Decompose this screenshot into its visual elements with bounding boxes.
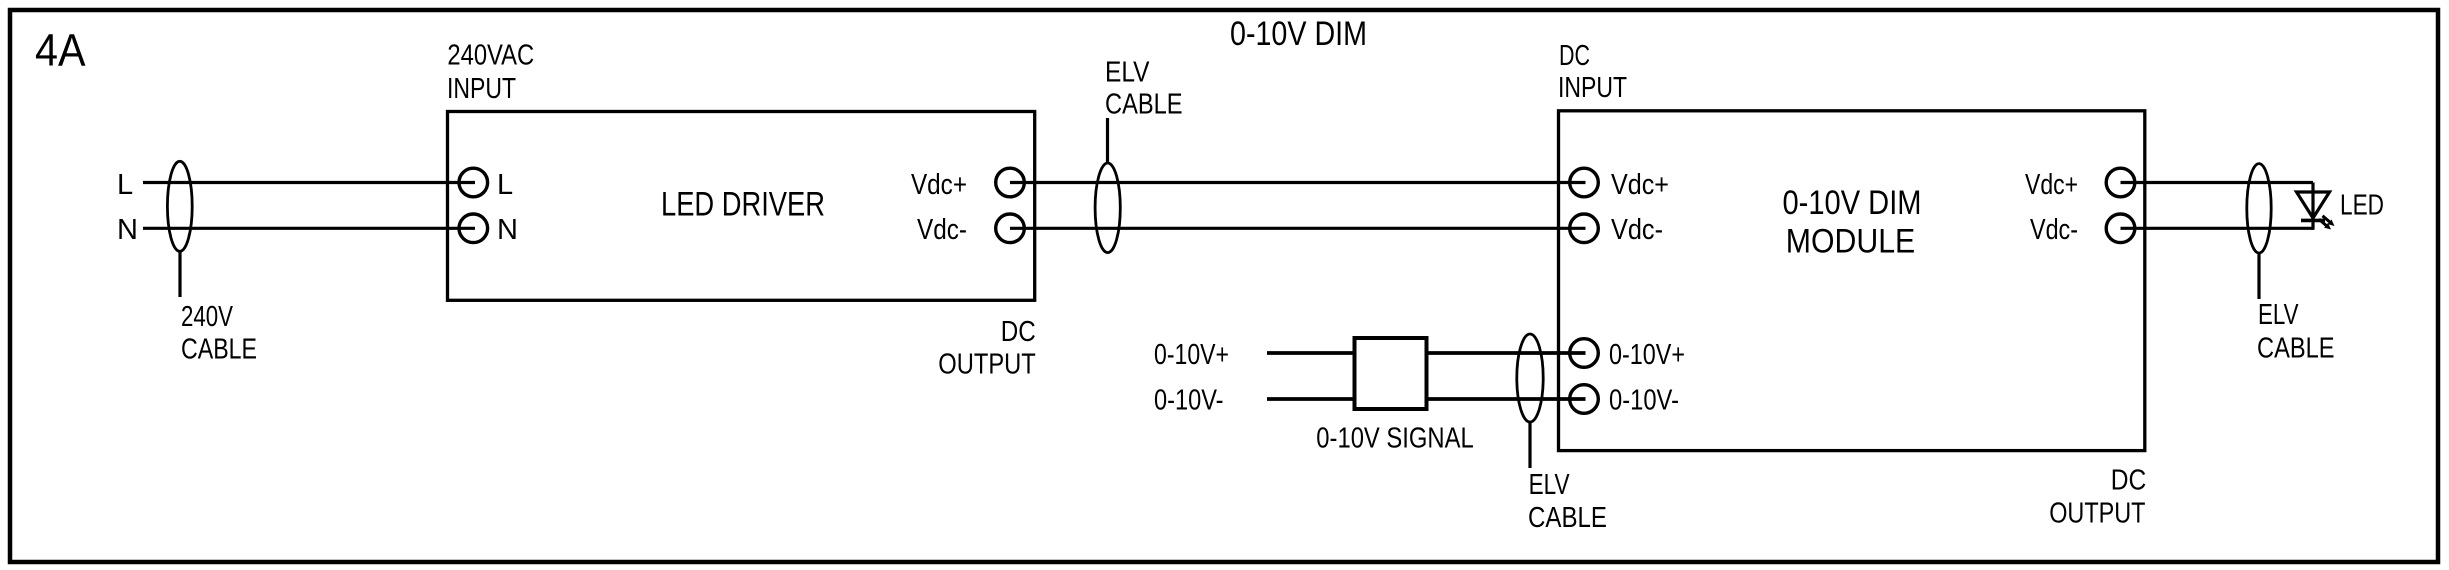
svg-text:L: L xyxy=(117,169,133,201)
svg-text:N: N xyxy=(497,214,518,246)
svg-text:240V: 240V xyxy=(181,301,233,333)
svg-text:0-10V+: 0-10V+ xyxy=(1609,339,1685,371)
svg-text:0-10V SIGNAL: 0-10V SIGNAL xyxy=(1316,422,1473,454)
svg-text:L: L xyxy=(497,169,513,201)
svg-text:DC: DC xyxy=(2111,465,2147,497)
svg-text:CABLE: CABLE xyxy=(2257,333,2335,365)
svg-text:CABLE: CABLE xyxy=(1528,502,1607,534)
svg-text:0-10V-: 0-10V- xyxy=(1609,385,1679,417)
svg-text:LED DRIVER: LED DRIVER xyxy=(661,185,825,223)
svg-text:DC: DC xyxy=(1559,40,1590,72)
svg-text:0-10V-: 0-10V- xyxy=(1154,385,1224,417)
svg-text:Vdc+: Vdc+ xyxy=(911,169,967,201)
svg-text:Vdc+: Vdc+ xyxy=(2025,169,2078,201)
svg-text:N: N xyxy=(117,214,138,246)
svg-text:ELV: ELV xyxy=(1529,469,1571,501)
svg-text:INPUT: INPUT xyxy=(1558,72,1627,104)
svg-text:OUTPUT: OUTPUT xyxy=(938,349,1036,381)
svg-text:OUTPUT: OUTPUT xyxy=(2049,498,2146,530)
svg-text:INPUT: INPUT xyxy=(447,73,516,105)
svg-text:Vdc-: Vdc- xyxy=(1611,214,1663,246)
svg-text:LED: LED xyxy=(2340,189,2384,221)
svg-text:MODULE: MODULE xyxy=(1786,223,1916,261)
svg-text:Vdc+: Vdc+ xyxy=(1611,169,1669,201)
svg-text:Vdc-: Vdc- xyxy=(2030,214,2078,246)
svg-text:DC: DC xyxy=(1001,316,1036,348)
svg-text:ELV: ELV xyxy=(1105,57,1150,89)
svg-text:CABLE: CABLE xyxy=(181,334,257,366)
svg-text:Vdc-: Vdc- xyxy=(917,214,967,246)
svg-text:0-10V DIM: 0-10V DIM xyxy=(1783,184,1922,222)
svg-text:CABLE: CABLE xyxy=(1105,89,1183,121)
svg-text:ELV: ELV xyxy=(2258,299,2299,331)
svg-text:0-10V DIM: 0-10V DIM xyxy=(1230,15,1367,53)
svg-text:0-10V+: 0-10V+ xyxy=(1154,339,1229,371)
svg-text:240VAC: 240VAC xyxy=(447,40,534,72)
svg-text:4A: 4A xyxy=(35,24,86,75)
